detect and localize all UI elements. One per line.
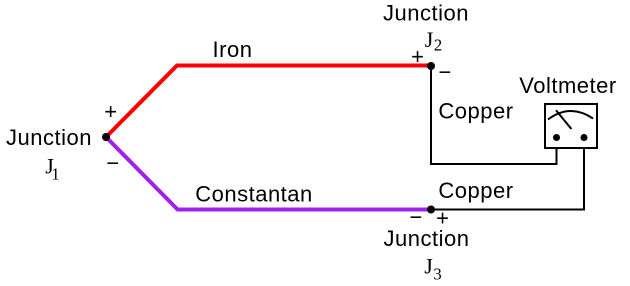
svg-text:−: − xyxy=(409,205,422,230)
svg-text:Junction: Junction xyxy=(383,1,469,26)
svg-text:J: J xyxy=(425,27,434,52)
svg-text:2: 2 xyxy=(434,36,443,55)
svg-text:Junction: Junction xyxy=(384,226,470,251)
svg-text:−: − xyxy=(106,151,119,176)
svg-text:Voltmeter: Voltmeter xyxy=(519,73,616,98)
svg-text:+: + xyxy=(104,99,117,124)
svg-text:Copper: Copper xyxy=(438,178,513,203)
svg-text:+: + xyxy=(411,44,424,69)
svg-text:Copper: Copper xyxy=(438,99,513,124)
svg-text:J: J xyxy=(424,254,433,279)
svg-text:−: − xyxy=(438,60,451,85)
svg-text:3: 3 xyxy=(433,265,442,284)
svg-text:Iron: Iron xyxy=(213,37,253,62)
svg-text:Constantan: Constantan xyxy=(195,182,313,207)
svg-text:+: + xyxy=(436,206,449,231)
svg-text:Junction: Junction xyxy=(6,125,92,150)
svg-text:1: 1 xyxy=(51,164,60,183)
